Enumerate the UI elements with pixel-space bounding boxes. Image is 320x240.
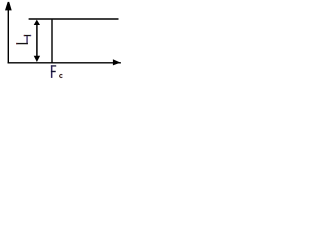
subscript c	[60, 74, 62, 77]
axis diagram: level L vs frequency F with cutoff Fc	[0, 0, 128, 87]
top level line	[29, 18, 119, 20]
letter F: stem	[51, 65, 53, 78]
y-axis arrowhead	[5, 2, 12, 11]
x-axis arrowhead	[113, 59, 121, 65]
label glyph: top bar	[24, 35, 31, 36]
y-axis line	[7, 10, 9, 64]
dimension arrow upper head	[34, 20, 40, 25]
dimension arrow lower head	[34, 56, 40, 62]
dimension arrow shaft	[36, 24, 38, 57]
vertical line at Fc	[51, 20, 53, 64]
label glyph: stem	[26, 36, 27, 44]
letter F: top bar	[51, 65, 56, 66]
letter F: middle bar	[51, 71, 56, 72]
label glyph: bottom bar	[16, 43, 28, 44]
x-axis line	[8, 62, 121, 64]
